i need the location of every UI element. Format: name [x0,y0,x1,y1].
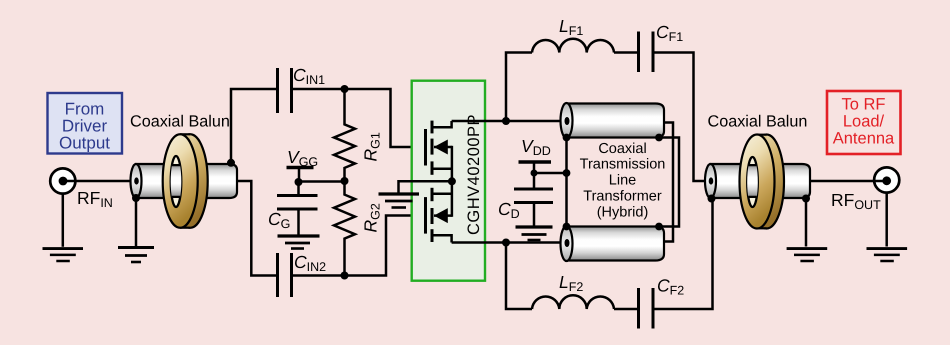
svg-text:Antenna: Antenna [833,130,895,148]
wire C_IN2 to node B [293,274,345,277]
wire node D2 to transformer bottom [506,241,562,244]
capacitor C_IN2 [278,253,292,297]
wire V_GG node to C_G [297,182,300,195]
capacitor C_G [277,196,318,210]
supply terminal V_DD [519,160,552,163]
wire common source to ground [399,181,452,193]
capacitor C_IN1 [278,68,292,113]
node R_G1/R_G2 junction [341,177,349,185]
ground (C_D) [516,227,553,240]
transistor package CGHV40200PP (green box) [412,81,485,281]
wire V_GG to node [298,168,301,183]
transistor Q1 (top FET) [426,121,452,182]
node D2 [502,239,510,247]
node V_GG [295,178,303,186]
wire RF_IN to ground [62,194,65,247]
coaxial balun (input): coax cylinder [131,164,238,198]
ground (output balun) [787,249,828,261]
ground (C_G) [278,236,320,249]
node V_DD tap [563,169,571,177]
wire drain 2 to node D2 [452,241,506,244]
coaxial balun (input): toroid core [163,134,208,228]
wire balun right to C_IN2 [237,181,276,276]
resistor R_G1 [334,89,355,181]
wire C_F2 to output balun shield [655,199,713,309]
svg-text:CGHV40200PP: CGHV40200PP [465,114,483,235]
wire node D1 to transformer top [506,120,562,123]
wire bottom feedback riser [506,243,532,310]
transistor Q2 (bottom FET) [426,181,452,242]
node shield top-right [655,134,663,142]
svg-text:Coaxial: Coaxial [598,141,646,157]
svg-text:(Hybrid): (Hybrid) [597,204,649,220]
svg-text:To RF: To RF [841,96,885,114]
wire transformer center conductors loop (right) [663,123,673,242]
wire output balun to RF_OUT [810,180,887,183]
node shield top-left [563,134,571,142]
svg-text:Transformer: Transformer [583,189,662,205]
svg-text:Coaxial Balun: Coaxial Balun [708,113,808,131]
node common source [448,177,456,185]
svg-text:Load/: Load/ [843,113,885,131]
node B (bottom rail node) [341,272,349,280]
node shield bottom-left [563,223,571,231]
wire C_IN1 to node A [293,88,345,91]
label Coaxial Transmission Line Transformer (Hybrid) [580,141,666,221]
svg-text:Transmission: Transmission [580,157,666,173]
wire RF_OUT to ground [885,193,888,247]
node D1 [502,117,510,125]
connector RF_OUT [874,167,899,192]
node output balun shield right [802,195,810,203]
node V_DD/C_D [531,170,538,177]
resistor R_G2 [334,181,355,276]
wire C_D to ground [533,203,536,227]
wire RF_IN to balun [63,180,134,183]
wire node B to gate 2 [345,216,423,276]
wire V_DD to tap [534,162,567,173]
transformer bottom coax line [561,226,665,261]
capacitor C_D [514,189,553,203]
inductor L_F1 [532,39,614,53]
wire top feedback riser [506,53,532,122]
wire L_F1 to C_F1 [614,51,637,54]
wire V_DD center tap [565,138,568,227]
box From Driver Output [48,93,123,154]
wire C_G to ground [297,209,300,236]
wire drain 1 to node D1 [452,120,506,123]
wire L_F2 to C_F2 [614,308,637,311]
wire V_GG node to R junction [299,180,345,183]
wire output balun shield to ground [805,199,808,247]
capacitor C_F1 [639,32,654,73]
wire transformer shields loop (right) [659,138,679,227]
ground (RF_OUT) [867,249,908,261]
node shield bottom-right [655,223,663,231]
node output balun shield left [708,195,716,203]
node balun top (to C_IN1) [227,159,235,167]
svg-text:Coaxial Balun: Coaxial Balun [130,113,230,131]
svg-text:Output: Output [59,134,110,153]
wire node A to gate 1 [345,89,423,147]
box To RF Load/Antenna [827,91,901,154]
coaxial balun (output): coax cylinder [705,164,810,198]
capacitor C_F2 [639,288,654,329]
wire V_DD node to C_D [533,173,536,189]
connector RF_IN [50,168,75,193]
transformer top coax line [561,103,665,138]
ground (common source) [379,194,420,208]
node A (top gate node) [341,85,349,93]
svg-text:Line: Line [609,173,636,189]
wire C_F1 to output balun [655,53,706,182]
coaxial balun (output): toroid core [740,135,785,229]
ground (input balun shield) [118,194,154,262]
supply terminal V_GG [287,166,314,169]
wire balun top to C_IN1 [231,89,276,163]
ground (RF_IN) [43,249,84,261]
inductor L_F2 [532,295,614,309]
connector RF_OUT center pin [882,176,891,185]
